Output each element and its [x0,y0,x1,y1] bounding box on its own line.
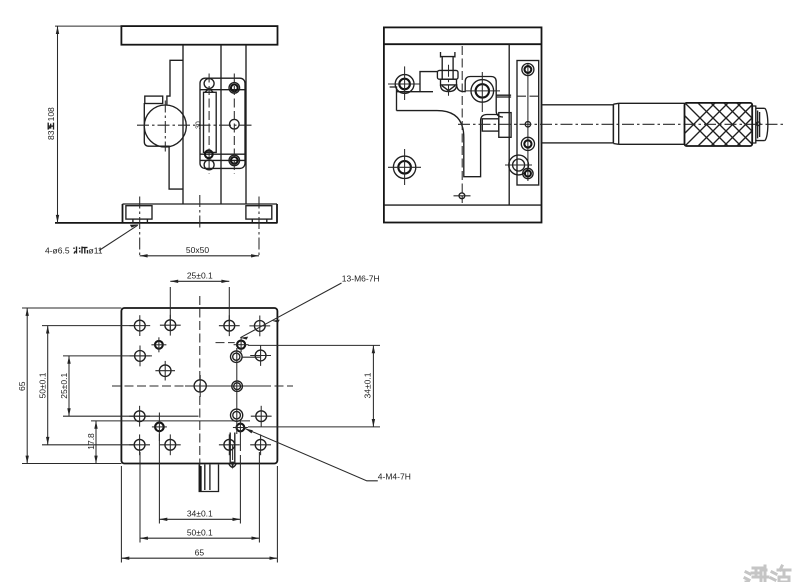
top-left hole crosshair [388,83,420,85]
svg-text:50±0.1: 50±0.1 [38,372,48,398]
crosshair ticks c1r3 [129,415,150,417]
micrometer thimble with knurling [685,103,753,146]
mount plate rectangle [517,61,539,186]
crosshair ticks M4 top-left [151,344,166,346]
right foot centerline [258,197,260,259]
side plate inner bottom line 2 [200,159,245,161]
end cap inner lines [758,111,760,139]
carriage boss outline [457,77,503,118]
cone lines under top-left hole [205,88,213,92]
setscrew neck [442,57,453,70]
knob bracket small tab [145,96,163,103]
body outer rectangle [384,27,542,222]
left dim 65: extensions [22,307,121,309]
right foot through hole [251,219,253,223]
left dim 65 line [26,308,28,464]
column right edge [245,45,247,204]
left dim 25 line [68,356,70,416]
watermark 激活 (activate) drawn strokes [745,566,790,582]
horizontal centerline through knob and side plate [137,124,252,126]
svg-text:30: 30 [196,121,203,129]
spindle block large [499,113,511,138]
M6 hole c1r2 [135,351,146,362]
carriage cut lower edge with big fillet and stem [397,111,499,177]
crosshair ticks M4 bottom-left [152,426,167,428]
knob bracket left side and lower arm [144,103,183,189]
center crosshair solid segment [185,385,268,387]
thimble step [752,106,756,144]
micrometer step ring [612,104,614,143]
crosshair ticks c4r3 [251,415,272,417]
svg-text:ø11: ø11 [89,246,103,256]
bottom-left screw hole outer [393,156,415,178]
top plate top-edge extension line [55,25,121,27]
dim 17.8: extension [91,420,250,422]
counterbore ring lower [231,409,243,421]
knob vertical centerline [164,101,166,152]
dim 25 top: extension lines [169,287,171,331]
ground/base bottom line [55,222,278,224]
top-left screw hole inner [399,79,410,90]
dim 17.8 line [95,421,97,464]
dashed tick left of M4 top-right [216,342,235,344]
M6 hole mid-left [159,365,171,377]
clamp screw big [509,155,529,175]
base plate top edge [123,203,278,205]
svg-text:4-ø6.5: 4-ø6.5 [45,246,70,256]
counterbore ring upper [231,351,243,363]
svg-text:65: 65 [17,381,27,391]
front view center bottom centerline [199,195,201,230]
mount small circle [525,122,530,127]
dim 25 top line [170,280,229,282]
M6 hole c4r3 [256,411,267,422]
bottom-left screw hole inner [398,161,411,174]
boss circle crosshair [466,90,500,92]
svg-text:13-M6-7H: 13-M6-7H [342,274,380,284]
counterbore ring center [232,381,243,392]
ring column vertical line [236,348,238,434]
dimension text 83至108 rotated [46,107,56,140]
base plate right edge [276,204,278,223]
hidden dashed lines across plate [517,95,539,97]
connector tab below square [199,465,218,492]
bottom dim 34: extensions [158,434,160,524]
micrometer barrel section 2 [613,103,684,144]
crosshair ticks mid-left hole [155,370,175,372]
carriage cut upper-left step [390,87,433,111]
boss bearing inner ring [476,84,489,97]
stage square outline [121,308,277,464]
side plate slot [204,92,217,152]
crosshair ticks M4 top-right [234,344,249,346]
bottom dim 65: extensions [120,466,122,563]
setscrew top U [441,52,455,58]
mount plate screws centerline [527,63,529,181]
side plate hole mid-right [230,119,240,129]
crosshair ticks M4 bottom-right [233,427,248,429]
setscrew left ledge [420,72,437,92]
side plate inner bottom line 1 [200,153,245,155]
crosshair ticks c4r1 [249,325,270,327]
crosshair ticks c4r4 [250,444,271,446]
top-left screw hole outer [395,75,414,94]
bottom small pin circle [459,193,465,199]
crosshair ticks c3r1 [219,325,240,327]
mount screw top [522,64,534,76]
M6 hole c3r4 [224,439,235,450]
top platform plate [121,26,277,45]
svg-text:17.8: 17.8 [86,433,96,450]
svg-text:65: 65 [195,547,205,557]
mount screw bottom [523,168,533,178]
M6 hole c1r1 [134,320,145,331]
mount plate left vertical [508,44,510,205]
end cap tiny circle [756,122,760,126]
right foot counterbore slot [246,206,272,219]
dimension 50x50 [140,255,259,257]
boss bearing outer circle [471,80,494,103]
crosshair ticks c2r4 [160,444,181,446]
M4 hole top-left [155,341,163,349]
svg-text:108: 108 [46,107,56,121]
screw head bottom-right [229,155,240,166]
crosshair ticks c2r1 [160,324,181,326]
ratchet end cap [756,108,768,140]
knob big circle [144,105,186,147]
left dim 50 line [47,326,49,445]
side plate rounded rectangle [200,78,245,168]
top plate joint line [384,43,542,45]
crosshair ticks counterbore upper [242,356,260,358]
side plate left hole column centerline [208,74,210,175]
svg-text:34±0.1: 34±0.1 [363,372,373,398]
horizontal center dashed line [112,385,293,387]
crosshair ticks c1r1 [129,325,150,327]
svg-text:50±0.1: 50±0.1 [187,528,213,538]
left foot centerline [139,197,141,259]
left dim 50: extensions [42,325,134,327]
svg-text:4-M4-7H: 4-M4-7H [378,472,411,482]
micrometer barrel section 1 [542,105,614,143]
bottom-left hole crosshair [388,166,421,168]
screw head bottom-left small [205,150,213,158]
setscrew nut [437,70,458,79]
column left edge [182,45,184,204]
U slot with arrow under M4 hole [229,433,236,468]
M6 hole c2r4 [165,439,176,450]
M6 hole c1r3 [134,411,145,422]
setscrew cup with cone tip [441,85,457,92]
M6 hole c4r2 [255,350,266,361]
column mid edge [220,45,222,204]
right dim 34 line [372,345,374,427]
side plate hole bottom-left [204,160,214,170]
spindle double line [496,95,511,97]
micrometer axis centerline [458,123,785,125]
dimension 83to108 vertical line [57,26,59,223]
M6 hole c4r4 [255,439,266,450]
svg-text:83: 83 [46,130,56,140]
crosshair ticks c3r4 [219,444,240,446]
M6 hole c2r1 [165,320,176,331]
crosshair ticks c1r4 [129,444,150,446]
bottom dim 50: extensions [139,452,141,543]
M4 hole bottom-right [237,424,245,432]
side plate right hole column centerline [233,74,235,175]
M6 hole c4r1 [254,321,265,332]
side plate hole top-left [204,79,214,89]
left foot counterbore slot [126,206,152,219]
right dim 34: extensions [248,344,380,346]
M4 hole top-right [237,341,245,349]
carriage centerline dashed [461,46,463,203]
crosshair ticks c1r2 [130,355,151,357]
left dim 25: extensions [63,355,152,357]
leader 4-ø6.5 counterbore ø11 [99,225,138,250]
crosshair ticks c4r2 [250,355,271,357]
base plate left edge [122,204,124,223]
M4 hole bottom-left [155,423,164,432]
mount screw mid [521,137,534,150]
vertical center dashed line [199,296,201,468]
svg-text:34±0.1: 34±0.1 [187,509,213,519]
svg-text:25±0.1: 25±0.1 [187,271,213,281]
setscrew lower body [441,79,457,85]
crosshair ticks center hole [199,375,201,397]
spindle block small [482,119,499,131]
M6 center hole [194,380,206,392]
bottom plate joint line [384,204,542,206]
left foot through hole [132,219,134,223]
svg-text:50x50: 50x50 [186,245,209,255]
knob bracket upper step [167,60,183,104]
svg-text:25±0.1: 25±0.1 [59,373,69,399]
M6 hole c1r4 [134,439,145,450]
bottom dim 65 line [121,557,277,559]
setscrew centerline [448,65,450,96]
screw head top-right [229,83,240,94]
M6 hole c3r1 [224,320,235,331]
bottom dim 34 line [159,518,240,520]
side plate inner top line [200,89,245,91]
bottom dim 50 line [140,537,259,539]
